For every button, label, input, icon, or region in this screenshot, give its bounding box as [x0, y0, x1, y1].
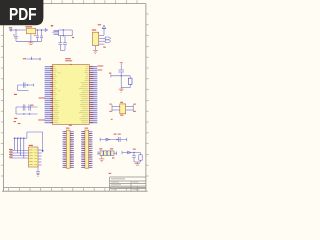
wire	[94, 46, 96, 51]
label	[112, 157, 114, 158]
net arrow	[41, 150, 43, 153]
header JP1	[63, 130, 74, 168]
mcu U1 right net labels	[98, 66, 104, 71]
label	[120, 115, 123, 116]
pin 3 wire	[99, 40, 106, 42]
label	[31, 105, 34, 106]
label U2	[29, 145, 33, 146]
regulator U3 body	[26, 28, 35, 34]
label U1 AT89C52	[65, 58, 72, 61]
wire	[16, 40, 42, 42]
ic U2 right pins	[38, 150, 42, 165]
capacitor C4	[52, 30, 58, 34]
wire	[13, 29, 26, 31]
label	[72, 37, 74, 38]
resistor R1	[128, 76, 132, 88]
label	[114, 134, 121, 135]
wire loop	[16, 107, 38, 114]
wire	[122, 151, 141, 155]
mcu U1 right pin wires	[89, 67, 97, 123]
ic U2 body	[29, 147, 39, 167]
wire	[126, 105, 134, 112]
mcu U1 pin numbers	[50, 66, 93, 123]
wires to U2	[9, 149, 29, 158]
label	[14, 118, 17, 119]
capacitor C6	[63, 36, 67, 51]
capacitor C5	[58, 36, 62, 51]
capacitor C1	[14, 30, 18, 41]
node	[121, 75, 122, 76]
ground	[119, 88, 124, 93]
label C4	[51, 25, 53, 26]
wire drops	[14, 137, 25, 158]
power wire	[23, 57, 41, 61]
wire	[134, 161, 141, 163]
polarity mark	[13, 34, 14, 35]
net label	[14, 121, 21, 124]
svg-text:PDF: PDF	[9, 4, 37, 24]
connector J1	[9, 29, 13, 32]
node	[15, 29, 16, 30]
mcu U1 pin name text	[53, 66, 88, 123]
node	[63, 35, 64, 36]
net arrow	[106, 138, 110, 141]
polarity mark	[34, 35, 35, 36]
mcu U1 left pin wires	[45, 67, 53, 123]
wire	[18, 85, 29, 91]
node	[41, 29, 42, 30]
resistor R2	[139, 153, 142, 163]
wire	[126, 138, 128, 142]
ic U2 pin text	[29, 150, 37, 165]
capacitor C12	[132, 153, 136, 163]
power flag VCC	[102, 25, 106, 28]
net arrow	[128, 151, 131, 154]
ground	[99, 156, 104, 162]
PDF badge	[0, 0, 43, 25]
wire	[30, 34, 32, 42]
net label arrow	[105, 37, 111, 40]
pin 1 wire	[99, 29, 104, 36]
wire	[111, 74, 130, 77]
wire loop	[27, 132, 43, 151]
title block	[110, 177, 146, 191]
capacitor C9	[29, 104, 31, 110]
label	[109, 73, 111, 74]
label U3 7805	[25, 26, 32, 27]
label	[103, 47, 106, 48]
wire bus rail	[14, 137, 27, 139]
net label	[134, 104, 136, 112]
label JP2	[85, 128, 89, 129]
node	[23, 113, 30, 114]
sheet border frame with zone ticks	[1, 0, 149, 191]
net arrow VCC	[45, 29, 47, 32]
wire	[36, 29, 46, 31]
label Y1	[120, 102, 123, 103]
header JP2	[81, 130, 92, 168]
label J2	[92, 29, 96, 30]
pin 4 wire	[99, 43, 105, 45]
net label	[109, 173, 112, 174]
capacitor C11	[118, 137, 120, 142]
node	[116, 139, 117, 140]
net label	[51, 25, 53, 26]
wire	[121, 76, 130, 88]
capacitor C8	[23, 104, 25, 110]
connector J2 body	[93, 32, 99, 45]
wire	[60, 49, 65, 51]
label J1	[9, 27, 12, 28]
net label	[109, 104, 112, 120]
capacitor C10	[118, 70, 124, 76]
label	[133, 149, 136, 150]
label RN1	[99, 148, 113, 149]
ground	[28, 41, 33, 44]
capacitor C7	[18, 82, 34, 88]
capacitor C3	[40, 30, 43, 41]
wire loop	[59, 30, 73, 36]
mcu U1 body	[52, 65, 89, 125]
power flag	[120, 63, 123, 66]
mcu U1 left net labels	[38, 98, 45, 121]
label JP1	[66, 128, 70, 129]
label below U1	[69, 125, 72, 126]
pin 2 wire	[99, 37, 106, 39]
sheet background	[0, 0, 149, 198]
wire	[112, 105, 120, 112]
node	[37, 29, 38, 30]
mcu U1 top mark	[70, 63, 72, 66]
crystal Y1 body	[120, 104, 126, 114]
node	[63, 29, 64, 30]
resistor network RN1	[98, 151, 117, 156]
ground	[37, 173, 40, 176]
label	[14, 94, 17, 95]
ground	[93, 51, 98, 54]
net label arrow	[105, 40, 111, 43]
capacitor C13	[36, 167, 40, 173]
ground	[135, 162, 140, 165]
wire	[120, 65, 122, 69]
label VCC	[98, 24, 101, 25]
node	[133, 152, 134, 153]
wire	[100, 138, 127, 142]
capacitor C2	[36, 30, 39, 41]
